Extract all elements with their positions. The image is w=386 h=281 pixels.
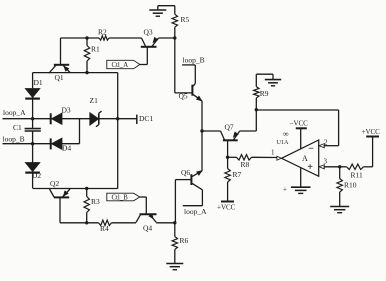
svg-text:D2: D2 [32,171,41,180]
svg-text:+: + [307,162,313,173]
svg-text:R7: R7 [233,170,242,179]
svg-text:Q4: Q4 [143,223,152,232]
svg-text:Ctl_A: Ctl_A [112,62,129,69]
svg-text:R9: R9 [260,89,269,98]
svg-text:R10: R10 [344,181,357,190]
svg-text:−VCC: −VCC [290,120,309,128]
svg-text:U1A: U1A [277,139,290,146]
svg-text:C1: C1 [13,123,22,132]
svg-text:∞: ∞ [283,130,289,139]
svg-text:R4: R4 [100,224,109,233]
svg-text:R2: R2 [98,28,107,37]
svg-text:+VCC: +VCC [217,204,236,212]
svg-text:R1: R1 [91,45,100,54]
svg-text:−: − [308,144,314,155]
svg-text:R3: R3 [91,197,100,206]
svg-text:Q5: Q5 [179,92,188,101]
svg-text:loop_B: loop_B [183,56,205,65]
svg-text:R8: R8 [241,160,250,169]
svg-text:+: + [283,186,287,194]
svg-text:D1: D1 [34,78,43,87]
svg-text:R6: R6 [180,236,189,245]
svg-text:Z1: Z1 [90,96,99,105]
svg-text:Q3: Q3 [144,28,153,37]
svg-text:Q1: Q1 [55,73,64,82]
svg-text:loop_B: loop_B [3,135,25,144]
svg-text:Q7: Q7 [225,123,234,132]
svg-text:R11: R11 [351,171,363,180]
svg-text:2: 2 [324,139,328,147]
svg-text:loop_A: loop_A [3,108,26,117]
svg-text:Q2: Q2 [50,179,59,188]
svg-text:3: 3 [324,158,328,166]
svg-text:Q6: Q6 [181,168,190,177]
svg-text:+VCC: +VCC [362,128,381,136]
svg-text:loop_A: loop_A [184,207,207,216]
svg-text:D3: D3 [62,106,71,115]
svg-text:R5: R5 [181,15,190,24]
svg-text:Ctl_B: Ctl_B [112,195,129,202]
svg-text:DC1: DC1 [139,114,153,123]
svg-text:D4: D4 [62,144,71,153]
svg-text:1: 1 [271,149,275,157]
